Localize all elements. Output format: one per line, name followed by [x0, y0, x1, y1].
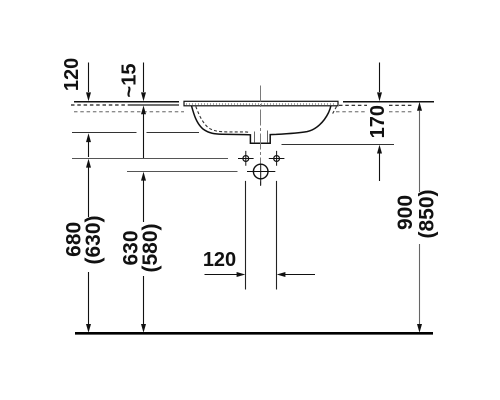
dim ~15 leaders and arrows: [141, 63, 146, 159]
dim 170 leaders and arrows: [377, 63, 382, 182]
svg-text:(630): (630): [82, 215, 105, 264]
drain inner wall right: [267, 131, 269, 143]
countertop top line left segment: [74, 101, 179, 103]
svg-text:120: 120: [61, 58, 83, 91]
svg-text:120: 120: [203, 249, 236, 271]
hidden edge grey dashed line left: [74, 111, 184, 113]
drain inner wall left: [254, 132, 256, 143]
fixing hole left: [238, 151, 254, 166]
svg-text:170: 170: [367, 105, 389, 138]
svg-text:(580): (580): [139, 223, 162, 272]
svg-text:~15: ~15: [118, 64, 140, 98]
hidden edge grey dashed line right: [336, 111, 413, 113]
dim 630 leader and arrows: [141, 172, 146, 333]
hidden inner bowl dashed curve: [196, 107, 250, 133]
floor line: [75, 332, 433, 335]
reference line 630 y=171.5: [127, 171, 238, 173]
hidden edge dashes right of bowl: [332, 107, 337, 116]
drain hole circle: [247, 164, 275, 186]
dim 900 leader and arrows: [417, 102, 422, 333]
dim 120 top leader and arrow: [86, 63, 91, 158]
svg-text:900: 900: [394, 195, 417, 230]
countertop top line right segment: [343, 101, 434, 103]
extension line left for 120 bottom: [245, 181, 247, 290]
basin bowl outer profile: [192, 106, 331, 144]
reference line 170 y=144.5: [282, 144, 395, 146]
fixing hole right: [269, 151, 285, 166]
countertop bottom line solid part: [130, 104, 179, 106]
reference line 680 y=158.5: [72, 158, 228, 160]
basin rim flange bar: [184, 101, 338, 106]
countertop bottom dashed line right: [339, 104, 412, 106]
svg-text:(850): (850): [416, 189, 439, 238]
countertop bottom line dashed part left: [71, 104, 130, 106]
reference line 120-depth y=132: [72, 132, 199, 134]
vertical centerline: [260, 86, 262, 187]
dim 680 leader and arrows: [86, 159, 91, 333]
dim 120 bottom leaders and arrows: [205, 272, 316, 277]
extension line right for 120 bottom: [276, 181, 278, 290]
